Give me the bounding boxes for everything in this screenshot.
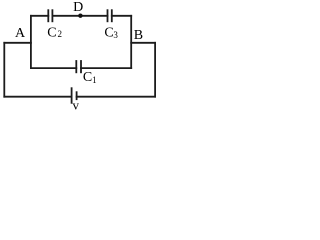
- wire A level left segment: [4, 42, 31, 44]
- svg-text:2: 2: [58, 29, 63, 39]
- svg-text:B: B: [134, 28, 143, 43]
- battery V long plate: [71, 88, 73, 103]
- wire top-left segment A corner to C2: [31, 15, 48, 17]
- svg-text:1: 1: [92, 75, 97, 85]
- capacitor C3: [108, 10, 112, 21]
- node D junction dot: [78, 14, 82, 18]
- svg-text:C: C: [47, 26, 56, 41]
- svg-text:v: v: [73, 97, 80, 112]
- svg-text:C: C: [83, 70, 92, 85]
- wire C2 to node D: [52, 15, 80, 17]
- wire B level right segment: [131, 42, 155, 44]
- wire node D to C3: [80, 15, 107, 17]
- wire C3 to B corner: [112, 15, 131, 17]
- wire C1 left segment: [31, 67, 76, 69]
- svg-text:D: D: [73, 0, 83, 15]
- svg-text:A: A: [15, 26, 26, 41]
- svg-text:C: C: [104, 26, 113, 41]
- wire outer-left vertical: [3, 43, 5, 97]
- wire battery left segment: [4, 96, 71, 98]
- battery V short plate: [76, 92, 78, 99]
- wire inner-left vertical (A branch): [30, 16, 32, 68]
- svg-text:3: 3: [113, 30, 118, 40]
- capacitor C1: [76, 61, 81, 72]
- wire C1 right segment: [81, 67, 131, 69]
- wire inner-right vertical (B branch): [130, 16, 132, 68]
- wire outer-right vertical: [154, 43, 156, 97]
- capacitor C2: [48, 10, 52, 21]
- wire battery right segment: [77, 96, 156, 98]
